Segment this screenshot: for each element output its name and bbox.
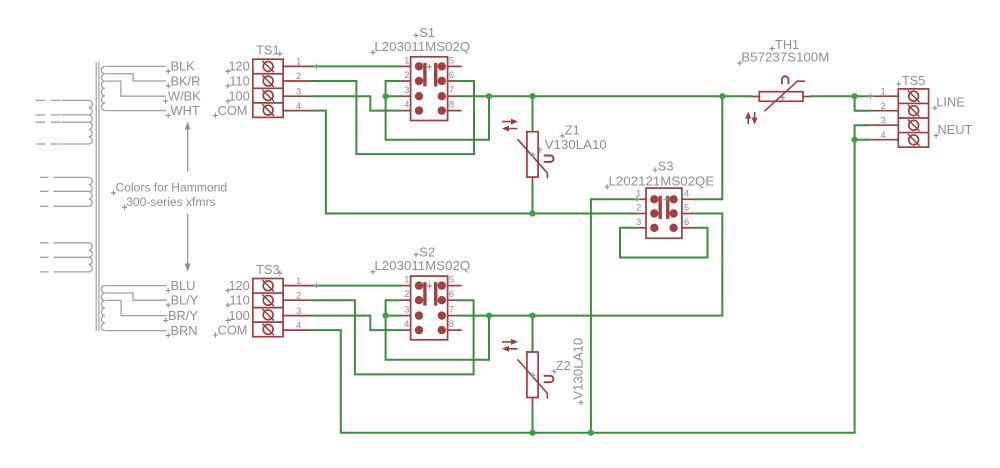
svg-text:120: 120 (228, 278, 249, 293)
svg-text:S3: S3 (658, 159, 674, 174)
wire TS5.4 to NEUT node (855, 139, 869, 141)
S3 pin 1 (635, 198, 646, 200)
wire P1 lead 1 dashed (36, 99, 62, 101)
S3 pin 2 (635, 213, 646, 215)
wire tap W/BK (106, 81, 167, 96)
svg-text:3: 3 (296, 306, 301, 317)
terminal block TS1 (253, 59, 283, 117)
wire tap BK/R (106, 74, 167, 81)
svg-text:S2: S2 (419, 244, 435, 259)
svg-text:3: 3 (404, 85, 409, 96)
svg-text:8: 8 (449, 319, 454, 330)
TH1 arrows (748, 112, 754, 124)
svg-text:2: 2 (296, 290, 301, 301)
svg-text:3: 3 (636, 217, 641, 228)
TS5 screw terminal 3 (909, 120, 919, 130)
wire TH1 to TS5.1 (811, 95, 868, 97)
wire Z1 bottom lead (532, 185, 534, 213)
wire P3 lead 3 dashed (40, 271, 62, 273)
junction S3.1 at bottom bus (588, 430, 594, 436)
terminal block TS5 (898, 89, 928, 147)
S3 pin 6 (682, 227, 695, 229)
svg-text:7: 7 (449, 85, 454, 96)
svg-text:BK/R: BK/R (171, 73, 201, 88)
wire S3.3 to S3.6 (U loop) (620, 228, 708, 258)
svg-text:4: 4 (684, 188, 689, 199)
svg-text:2: 2 (296, 71, 301, 82)
wire S2.2 to node B (386, 300, 399, 315)
TS3 screw terminal 1 (263, 281, 273, 291)
svg-text:100: 100 (228, 89, 249, 104)
S1 pin 4 (401, 110, 411, 112)
S2 pin 7 (448, 315, 458, 317)
wire tap WHT (106, 110, 167, 112)
svg-text:COM: COM (218, 103, 248, 118)
wire P2 lead 1 dashed (40, 176, 62, 178)
wire tap BLK (106, 65, 167, 67)
wire Z2 bottom lead (532, 406, 534, 433)
TS5 screw terminal 1 (909, 91, 919, 101)
S2 pin 6 (448, 299, 458, 301)
wire TS1.2 to S1.6 (outer U) (313, 81, 474, 154)
wire S3.1 down to bottom bus (591, 199, 635, 432)
TS5 pin 2 (868, 110, 898, 112)
Z2 U mark (544, 376, 554, 382)
terminal block TS3 (253, 279, 283, 337)
TH1 curl mark (782, 76, 789, 84)
TS1 screw terminal 3 (263, 91, 273, 101)
svg-text:BR/Y: BR/Y (168, 308, 198, 323)
svg-text:4: 4 (296, 320, 301, 331)
TS5 pin 3 (868, 124, 898, 126)
svg-text:6: 6 (449, 289, 454, 300)
svg-text:BL/Y: BL/Y (171, 293, 199, 308)
Z1 U mark (544, 156, 554, 162)
wire TS3.4 COM down to bottom bus (313, 330, 854, 433)
S2 actuator bars (423, 282, 426, 306)
S1 pin 2 (401, 80, 411, 82)
wire P2 lead 3 (62, 205, 89, 207)
svg-text:TS3: TS3 (256, 262, 279, 277)
junction TS5 NEUT node (852, 137, 858, 143)
S1 pin 3 (401, 95, 411, 97)
switch S3 body (646, 188, 682, 238)
transformer winding S1a (BLK..WHT) (101, 66, 105, 110)
junction Z2 at bottom bus (529, 430, 535, 436)
wire node A to LINE bus (inner U) (386, 96, 489, 140)
svg-text:LINE: LINE (936, 95, 964, 110)
TH1 pin stubs (751, 96, 759, 98)
wire P2 lead 3 dashed (40, 205, 62, 207)
TS1 pin 4 (283, 110, 313, 112)
svg-text:8: 8 (449, 100, 454, 111)
S2 pin 8 (448, 329, 461, 331)
wire P3 lead 2 (62, 256, 89, 258)
TS1 screw terminal 1 (263, 62, 273, 72)
varistor Z2 body (527, 352, 538, 398)
svg-text:L203011MS02Q: L203011MS02Q (374, 39, 470, 54)
S1 pin 7 (448, 95, 458, 97)
svg-text:5: 5 (449, 275, 454, 286)
TS5 pin 1 (868, 95, 898, 97)
svg-text:120: 120 (228, 59, 249, 74)
wire tap BRN (106, 330, 167, 332)
S1 pin 8 (448, 110, 461, 112)
svg-text:1: 1 (296, 276, 301, 287)
wire Z2 top lead (532, 316, 534, 351)
switch S2 body (411, 276, 448, 340)
wire P1 lead 2 (62, 114, 89, 116)
svg-text:WHT: WHT (171, 103, 200, 118)
S3 contact dots (650, 195, 658, 203)
junction inner U2 at bus2 (486, 313, 492, 319)
junction LINE bus at TS5 (852, 93, 858, 99)
Z1 varistor diagonal (518, 140, 547, 178)
junction inner U at LINE bus (486, 93, 492, 99)
svg-text:2: 2 (636, 203, 641, 214)
Z2 pin stubs (532, 348, 534, 353)
svg-text:1: 1 (404, 275, 409, 286)
svg-text:W/BK: W/BK (168, 89, 201, 104)
svg-text:V130LA10: V130LA10 (545, 137, 607, 152)
junction Z1 at LINE bus (529, 93, 535, 99)
wire P1 lead 3 dashed (36, 121, 62, 123)
wire TS3.2 to S2.6 (outer U) (313, 300, 473, 374)
Z2 varistor diagonal (518, 360, 547, 398)
S1 contact dots (415, 62, 423, 70)
transformer winding S2a (BLU..BRN) (101, 286, 105, 331)
svg-text:300-series xfmrs: 300-series xfmrs (126, 195, 215, 209)
wire P3 lead 1 (62, 242, 89, 244)
svg-text:2: 2 (404, 289, 409, 300)
Z1 surge arrows (502, 122, 518, 129)
TS3 screw terminal 2 (263, 295, 273, 305)
wire P1 lead 1 (62, 99, 89, 101)
TS1 pin 3 (283, 95, 313, 97)
wire tap BR/Y (106, 300, 167, 315)
svg-text:1: 1 (296, 57, 301, 68)
svg-text:L202121MS02QE: L202121MS02QE (609, 173, 715, 188)
wire TS1.4 COM to S3.2 (313, 111, 634, 214)
S1 pin 1 (401, 65, 411, 67)
Z2 surge arrows (502, 342, 518, 349)
svg-text:COM: COM (218, 322, 248, 337)
TS1 screw terminal 2 (263, 76, 273, 86)
TS3 screw terminal 3 (263, 310, 273, 320)
TS5 pin 4 (868, 139, 898, 141)
TS3 pin 3 (283, 315, 313, 317)
svg-text:5: 5 (684, 203, 689, 214)
wire TS3.1 to S2.1 (313, 285, 400, 287)
transformer winding P2 (89, 177, 93, 206)
TH1 diagonal (765, 81, 804, 111)
TS1 pin 2 (283, 80, 313, 82)
transformer core (96, 62, 99, 331)
wire TS1.3 to S1.4 (313, 96, 400, 110)
svg-text:1: 1 (404, 55, 409, 66)
TS5 screw terminal 4 (909, 135, 919, 145)
wire TS3.3 to S2.4 (313, 316, 400, 331)
svg-text:6: 6 (449, 70, 454, 81)
S3 actuator bars (659, 196, 662, 219)
Z1 pin stubs (532, 127, 534, 132)
wire P3 lead 3 (62, 271, 89, 273)
wire P1 lead 4 (62, 143, 89, 145)
wire P2 lead 2 dashed (40, 190, 62, 192)
wire P1 lead 3 (62, 121, 89, 123)
TS3 pin 4 (283, 329, 313, 331)
svg-text:4: 4 (404, 319, 409, 330)
S2 pin 5 (448, 285, 461, 287)
thermistor TH1 body (759, 92, 803, 102)
S2 pin 3 (401, 315, 411, 317)
S2 pin 4 (401, 329, 411, 331)
svg-text:BRN: BRN (171, 323, 198, 338)
TS3 screw terminal 4 (263, 325, 273, 335)
wire LINE bus S1.7 to TH1 (458, 95, 752, 97)
junction Z2 at bus2 (529, 313, 535, 319)
svg-text:3: 3 (881, 115, 886, 126)
wire P2 lead 1 (62, 176, 89, 178)
TS3 pin 2 (283, 299, 313, 301)
svg-text:TS5: TS5 (902, 73, 925, 88)
note arrow (double headed) (187, 125, 189, 269)
junction node A (S1.2/S1.3/inner U) (383, 93, 389, 99)
TS1 screw terminal 4 (263, 105, 273, 115)
wire P1 lead 2 dashed (36, 114, 62, 116)
switch S1 body (411, 57, 448, 121)
svg-text:110: 110 (229, 73, 249, 88)
svg-text:6: 6 (684, 217, 689, 228)
junction Z1 at COM wire (529, 210, 535, 216)
transformer winding P1 (89, 100, 93, 144)
wire tap BLU (106, 285, 167, 287)
S2 contact dots (415, 281, 423, 289)
svg-text:NEUT: NEUT (938, 122, 973, 137)
wire Z1 top lead (532, 96, 534, 130)
svg-text:V130LA10: V130LA10 (571, 338, 586, 400)
svg-text:5: 5 (449, 55, 454, 66)
wire P2 lead 2 (62, 190, 89, 192)
junction node B (S2.2/S2.3/inner U2) (383, 313, 389, 319)
junction S3.4 at LINE bus (719, 93, 725, 99)
svg-text:7: 7 (449, 305, 454, 316)
svg-text:110: 110 (229, 293, 249, 308)
S3 pin 4 (682, 198, 695, 200)
transformer winding P3 (89, 243, 93, 272)
wire NEUT node down to bottom bus (854, 140, 856, 433)
wire TS5.2 to LINE node (855, 96, 869, 111)
TS3 pin 1 (283, 285, 313, 287)
svg-text:Z1: Z1 (565, 122, 580, 137)
varistor Z1 body (527, 132, 538, 177)
svg-text:4: 4 (296, 101, 301, 112)
TS1 pin 1 (283, 65, 313, 67)
svg-text:TS1: TS1 (256, 43, 279, 58)
wire node A to S1.3 (386, 95, 401, 97)
svg-text:BLK: BLK (171, 59, 196, 74)
svg-text:4: 4 (404, 100, 409, 111)
wire bus2 S2.7 to S3.5 (458, 214, 722, 316)
wire TS5.3 to NEUT node (855, 125, 869, 140)
svg-text:2: 2 (404, 70, 409, 81)
svg-text:3: 3 (404, 305, 409, 316)
svg-text:Z2: Z2 (556, 358, 571, 373)
svg-text:BLU: BLU (171, 278, 196, 293)
svg-text:100: 100 (228, 308, 249, 323)
S1 pin 5 (448, 65, 461, 67)
S1 pin 6 (448, 80, 458, 82)
svg-text:L203011MS02Q: L203011MS02Q (374, 258, 470, 273)
wire S3.4 up to LINE bus (695, 96, 723, 199)
S3 pin 5 (682, 213, 695, 215)
wire S1.2 to node A (386, 81, 399, 96)
svg-text:1: 1 (881, 86, 886, 97)
wire TS1.1 to S1.1 (313, 65, 400, 67)
svg-text:4: 4 (881, 130, 886, 141)
svg-text:S1: S1 (419, 25, 435, 40)
svg-text:B57237S100M: B57237S100M (741, 49, 829, 64)
S3 pin 3 (635, 227, 646, 229)
svg-text:Colors for Hammond: Colors for Hammond (116, 180, 228, 194)
wire P3 lead 2 dashed (40, 256, 62, 258)
wire node B to S2.3 (386, 315, 401, 317)
wire tap BL/Y (106, 293, 167, 300)
svg-text:3: 3 (296, 86, 301, 97)
wire P3 lead 1 dashed (40, 242, 62, 244)
wire node B to bus2 (inner U) (386, 316, 489, 360)
S2 pin 2 (401, 299, 411, 301)
S1 actuator bars (423, 63, 426, 87)
TS5 screw terminal 2 (909, 106, 919, 116)
wire P1 lead 4 dashed (36, 143, 62, 145)
svg-text:2: 2 (881, 101, 886, 112)
S2 pin 1 (401, 285, 411, 287)
